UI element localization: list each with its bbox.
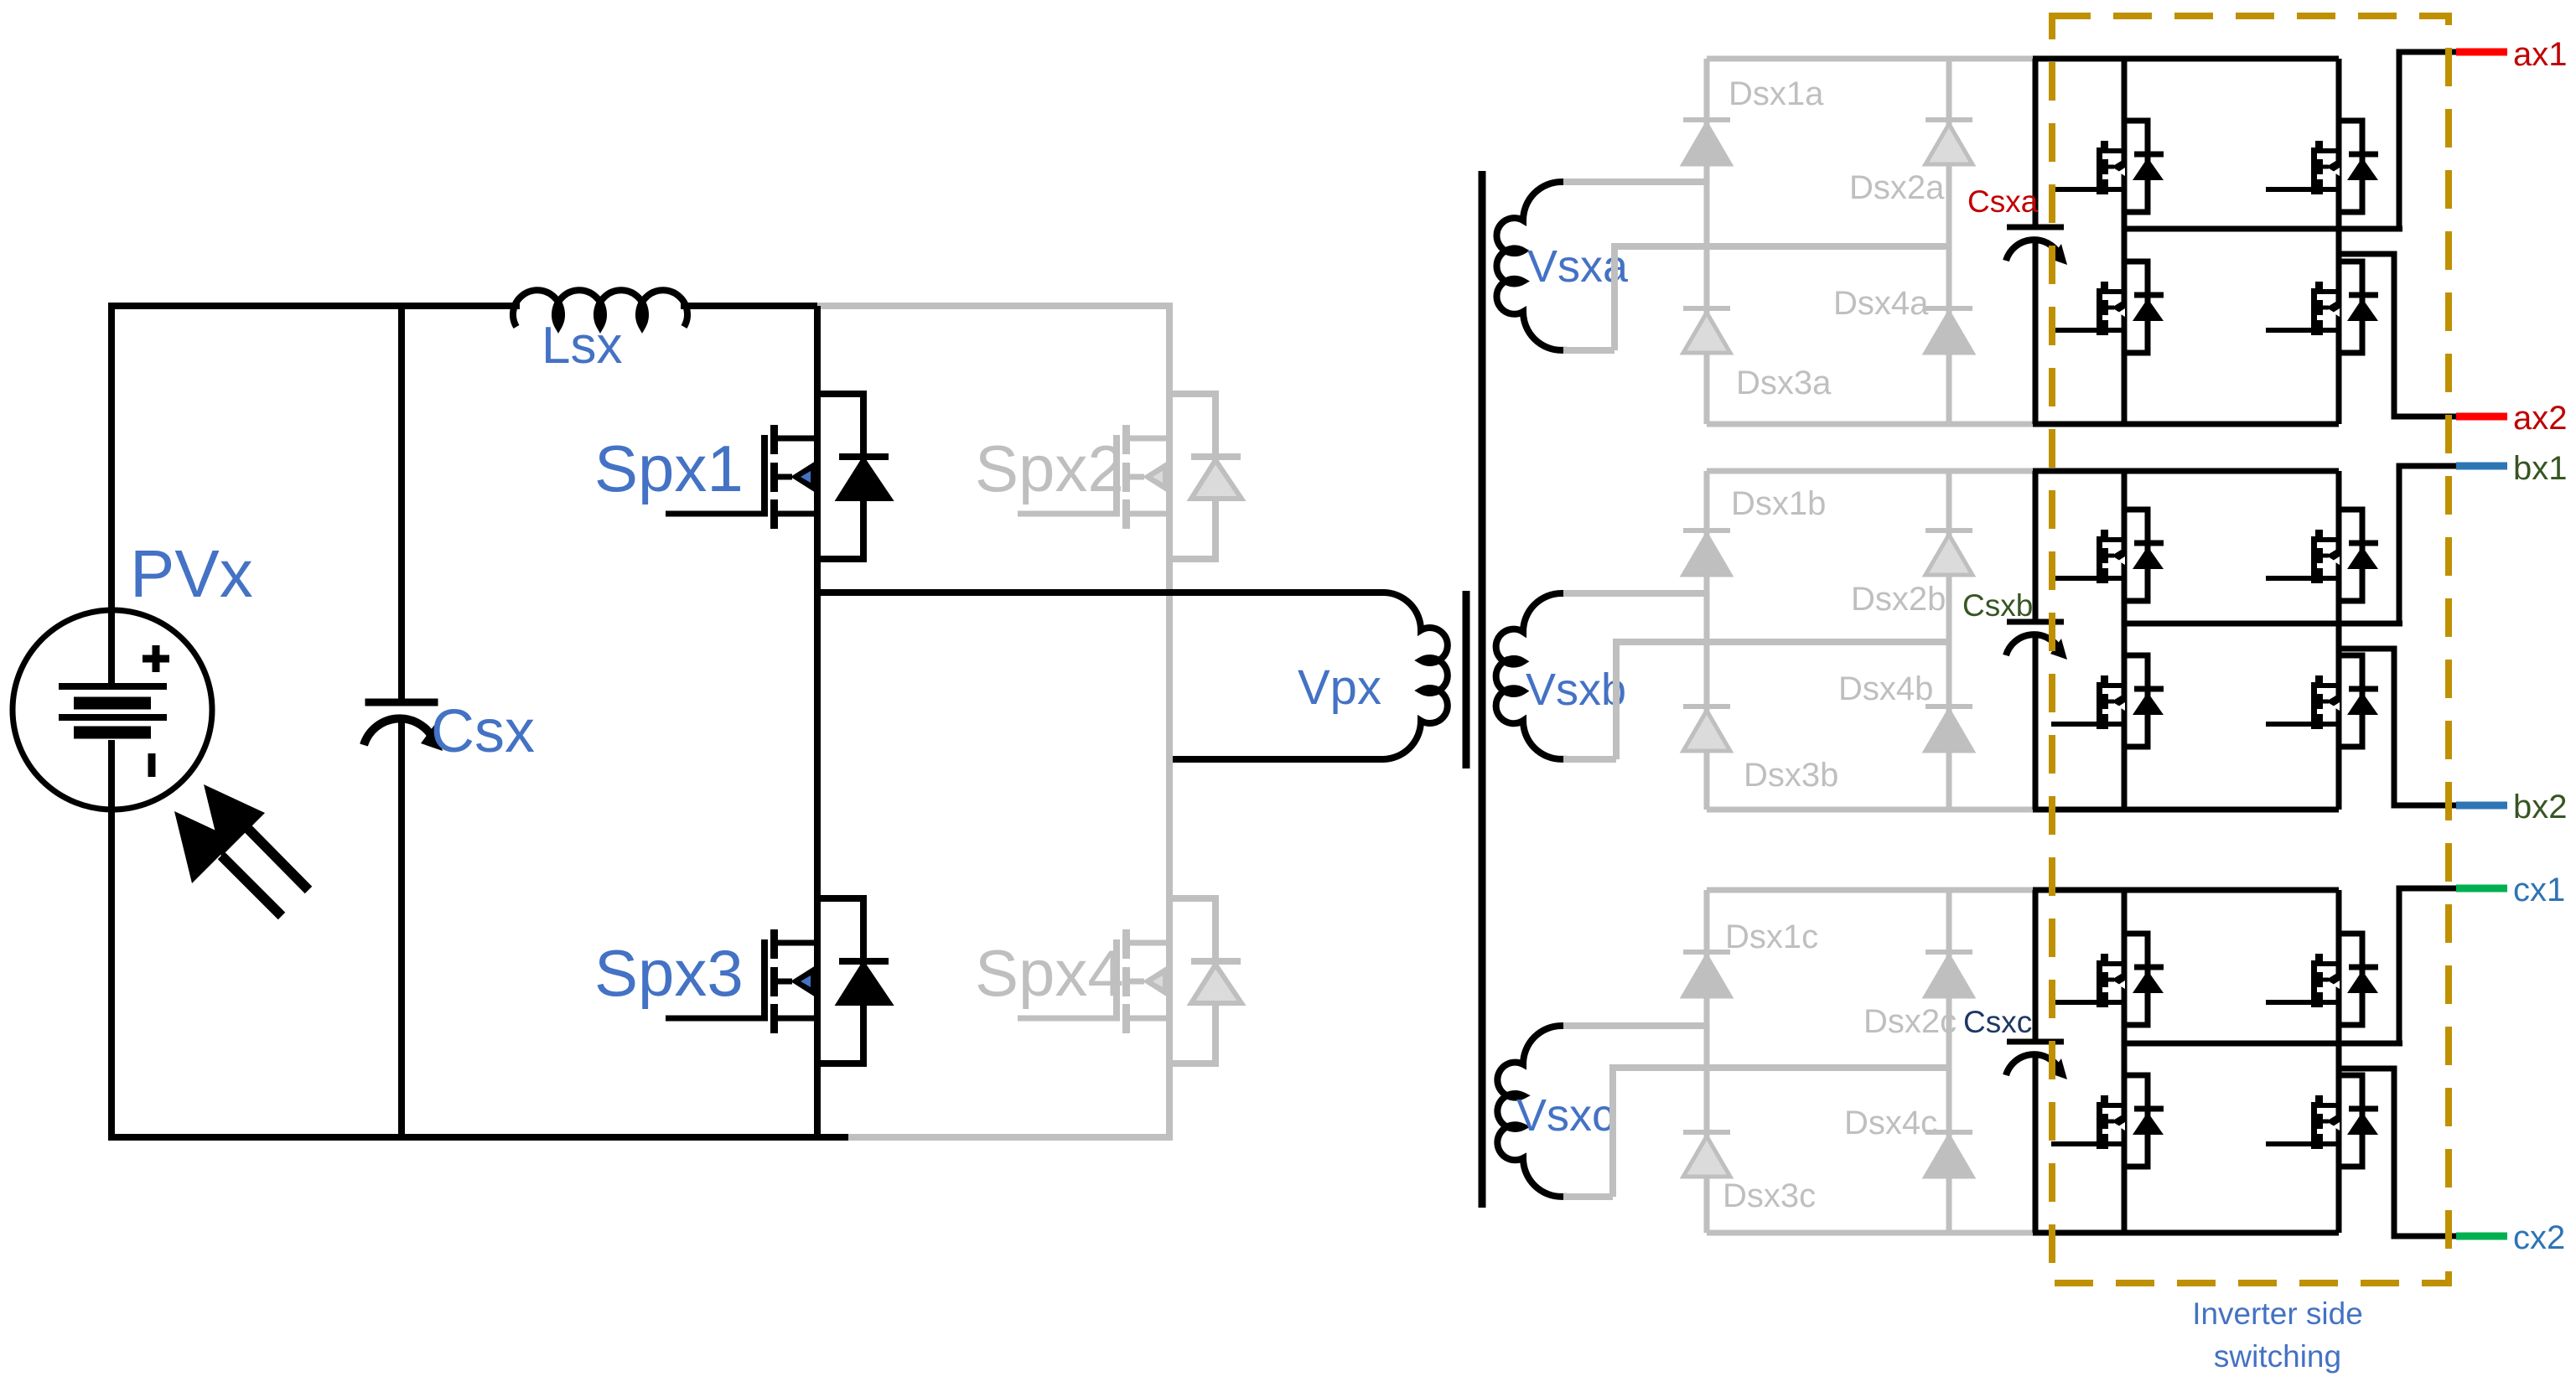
wire bridge b top rail to module	[1707, 468, 2039, 474]
diode Dsx1b	[1683, 528, 1730, 533]
transformer secondary winding Vsxa	[1496, 182, 1567, 350]
wire top rail left (PV+ to Lsx)	[108, 303, 520, 309]
transistor module a upper-right	[2339, 121, 2362, 212]
svg-text:Csxa: Csxa	[1967, 184, 2039, 219]
svg-text:Dsx2a: Dsx2a	[1849, 169, 1945, 206]
dashed box inverter side switching	[2052, 16, 2449, 1283]
transistor Spx3	[817, 898, 863, 1063]
wire output b1	[2399, 466, 2458, 624]
transformer secondary winding Vsxc	[1497, 1026, 1567, 1197]
svg-text:Csxc: Csxc	[1963, 1005, 2032, 1039]
wire module c middle rail	[2124, 1041, 2402, 1047]
wire output b2	[2339, 649, 2458, 805]
svg-text:PVx: PVx	[130, 536, 253, 611]
capacitor Csxb	[2007, 619, 2064, 625]
transistor Spx2	[1169, 394, 1215, 559]
diode Dsx4c	[1926, 1130, 1972, 1135]
svg-text:ax1: ax1	[2513, 36, 2568, 73]
wire top rail gray (to Spx2 drain)	[817, 303, 1169, 309]
wire bottom rail black (PV- to Spx3 source)	[108, 1134, 852, 1141]
wire bridge b right rail	[1946, 471, 1952, 810]
PV battery plate short thick 1	[74, 697, 151, 710]
svg-text:cx2: cx2	[2513, 1219, 2565, 1256]
transistor module b lower-left	[2124, 655, 2148, 747]
wire Vsxa riser + mid rail bridge a	[1615, 246, 1949, 350]
terminal stub a2	[2456, 413, 2507, 421]
svg-text:Dsx4c: Dsx4c	[1844, 1105, 1937, 1141]
diode Dsx2b	[1926, 528, 1972, 533]
svg-text:Spx3: Spx3	[594, 936, 744, 1010]
wire module a inner-left leg	[2122, 59, 2128, 424]
diode Dsx3a	[1683, 306, 1730, 311]
svg-text:Spx4: Spx4	[975, 936, 1124, 1010]
svg-text:Dsx1b: Dsx1b	[1731, 485, 1826, 522]
wire bridge c right rail	[1946, 890, 1952, 1233]
transformer core bar long	[1479, 171, 1486, 1208]
inductor Lsx	[513, 290, 687, 327]
svg-text:Dsx3c: Dsx3c	[1723, 1177, 1816, 1214]
wire bridge a left rail	[1704, 59, 1710, 424]
svg-text:ax2: ax2	[2513, 400, 2568, 437]
svg-text:Spx2: Spx2	[975, 432, 1124, 505]
wire left vertical lower (PV- branch)	[108, 740, 115, 1141]
capacitor Csxa	[2007, 225, 2064, 230]
wire output c1	[2399, 888, 2458, 1043]
transistor module c upper-left	[2124, 934, 2148, 1025]
wire bridge a right rail	[1946, 59, 1952, 424]
terminal stub c2	[2456, 1233, 2507, 1240]
terminal stub b1	[2456, 463, 2507, 470]
wire module c left edge lower	[2033, 1054, 2039, 1233]
wire module b top rail	[2033, 468, 2339, 474]
PV battery plate long mid	[59, 714, 167, 721]
wire output a2	[2339, 254, 2458, 417]
wire module a left edge upper (cap leg)	[2033, 59, 2039, 227]
svg-text:Dsx3b: Dsx3b	[1744, 757, 1838, 794]
wire module c top rail	[2033, 887, 2339, 893]
svg-text:Dsx1a: Dsx1a	[1729, 75, 1824, 112]
diode Dsx3b	[1683, 704, 1730, 709]
wire module c left edge upper (cap leg)	[2033, 890, 2039, 1042]
svg-text:Dsx1c: Dsx1c	[1725, 919, 1818, 955]
svg-text:Csxb: Csxb	[1962, 588, 2033, 623]
svg-text:bx2: bx2	[2513, 789, 2568, 825]
wire output c2	[2339, 1069, 2458, 1236]
svg-text:Spx1: Spx1	[594, 432, 744, 505]
transformer primary winding Vpx	[817, 593, 1448, 759]
wire Csx upper	[398, 303, 405, 700]
capacitor Csx	[365, 699, 438, 706]
wire module b bottom rail	[2033, 807, 2339, 813]
wire Spx3 leg vertical	[814, 591, 821, 1141]
wire Spx1 leg vertical	[814, 306, 821, 598]
diode Dsx4b	[1926, 704, 1972, 709]
svg-text:Dsx2b: Dsx2b	[1851, 581, 1946, 618]
svg-text:Dsx4a: Dsx4a	[1833, 285, 1929, 322]
wire Spx2/Spx4 leg vertical gray	[1166, 303, 1173, 1141]
transistor module b lower-right	[2339, 655, 2362, 747]
wire Vsxb bottom to riser	[1563, 756, 1616, 763]
wire left vertical upper (PV+ branch)	[108, 303, 115, 684]
transistor module a lower-right	[2339, 261, 2362, 353]
diode Dsx2c	[1926, 950, 1972, 955]
svg-text:Inverter side: Inverter side	[2192, 1296, 2363, 1331]
PV light arrow 2	[221, 856, 282, 916]
svg-text:Dsx2c: Dsx2c	[1863, 1003, 1957, 1040]
svg-text:Dsx3a: Dsx3a	[1736, 365, 1832, 401]
transistor module c upper-right	[2339, 934, 2362, 1025]
svg-text:Vsxc: Vsxc	[1516, 1090, 1615, 1141]
diode Dsx4a	[1926, 306, 1972, 311]
wire Vsxc bottom to riser	[1563, 1193, 1613, 1200]
wire Csx lower	[398, 721, 405, 1141]
wire module a left edge lower	[2033, 240, 2039, 424]
wire bridge c top rail to module	[1707, 887, 2039, 893]
svg-text:Dsx4b: Dsx4b	[1838, 670, 1933, 707]
wire bridge a top rail to module	[1707, 56, 2039, 62]
wire top rail (Lsx to Spx1 drain)	[681, 303, 821, 309]
wire bridge b left rail	[1704, 471, 1710, 810]
svg-text:Lsx: Lsx	[542, 317, 622, 375]
terminal stub c1	[2456, 885, 2507, 893]
wire module c inner-left leg	[2122, 890, 2128, 1233]
wire module a top rail	[2033, 56, 2339, 62]
wire module b left edge upper (cap leg)	[2033, 471, 2039, 622]
capacitor Csxc	[2007, 1039, 2064, 1045]
diode Dsx3c	[1683, 1130, 1730, 1135]
svg-text:cx1: cx1	[2513, 872, 2565, 908]
wire bridge c left rail	[1704, 890, 1710, 1233]
PV light arrow 1	[247, 828, 308, 890]
terminal stub a1	[2456, 49, 2507, 56]
transistor Spx4	[1169, 898, 1215, 1063]
transistor Spx1	[817, 394, 863, 559]
wire module b inner-left leg	[2122, 471, 2128, 810]
wire Vsxb top to bridge b	[1563, 590, 1707, 597]
wire Vsxc top to bridge c	[1563, 1022, 1707, 1029]
diode Dsx1c	[1683, 950, 1730, 955]
PV plus sign	[143, 645, 169, 672]
transistor module a upper-left	[2124, 121, 2148, 212]
svg-text:Vpx: Vpx	[1298, 660, 1381, 715]
wire module b left edge lower	[2033, 634, 2039, 810]
transistor module b upper-right	[2339, 510, 2362, 601]
wire bridge a bottom rail to module	[1707, 422, 2039, 427]
diode Dsx2a	[1926, 117, 1972, 122]
terminal stub b2	[2456, 802, 2507, 810]
PV source PVx circle	[13, 610, 212, 810]
transistor module a lower-left	[2124, 261, 2148, 353]
PV minus sign	[148, 753, 156, 777]
wire Vsxa bottom to riser	[1563, 347, 1615, 354]
svg-text:switching: switching	[2214, 1339, 2341, 1374]
wire module c right leg	[2336, 890, 2342, 1233]
transformer core bar short	[1463, 591, 1470, 768]
transistor module c lower-right	[2339, 1075, 2362, 1167]
wire module a right leg	[2336, 59, 2342, 424]
wire Vsxc riser + mid rail bridge c	[1613, 1068, 1949, 1197]
wire Vsxb riser + mid rail bridge b	[1616, 642, 1949, 759]
svg-text:Csx: Csx	[431, 698, 535, 765]
wire module a bottom rail	[2033, 422, 2339, 427]
PV battery plate long top	[59, 683, 167, 690]
svg-text:bx1: bx1	[2513, 450, 2568, 487]
transistor module b upper-left	[2124, 510, 2148, 601]
transistor module c lower-left	[2124, 1075, 2148, 1167]
wire module b middle rail	[2124, 621, 2402, 627]
wire module c bottom rail	[2033, 1230, 2339, 1236]
transformer secondary winding Vsxb	[1496, 593, 1567, 759]
diode Dsx1a	[1683, 117, 1730, 122]
wire bottom rail gray (to Spx4 source)	[848, 1134, 1173, 1141]
wire output a1	[2399, 52, 2458, 229]
wire Vsxa top to bridge a	[1563, 179, 1707, 185]
wire bridge b bottom rail to module	[1707, 807, 2039, 813]
wire bridge c bottom rail to module	[1707, 1230, 2039, 1236]
svg-text:Vsxb: Vsxb	[1526, 665, 1626, 715]
wire module a middle rail	[2124, 226, 2402, 232]
PV battery plate short thick 2	[74, 727, 151, 739]
wire module b right leg	[2336, 471, 2342, 810]
